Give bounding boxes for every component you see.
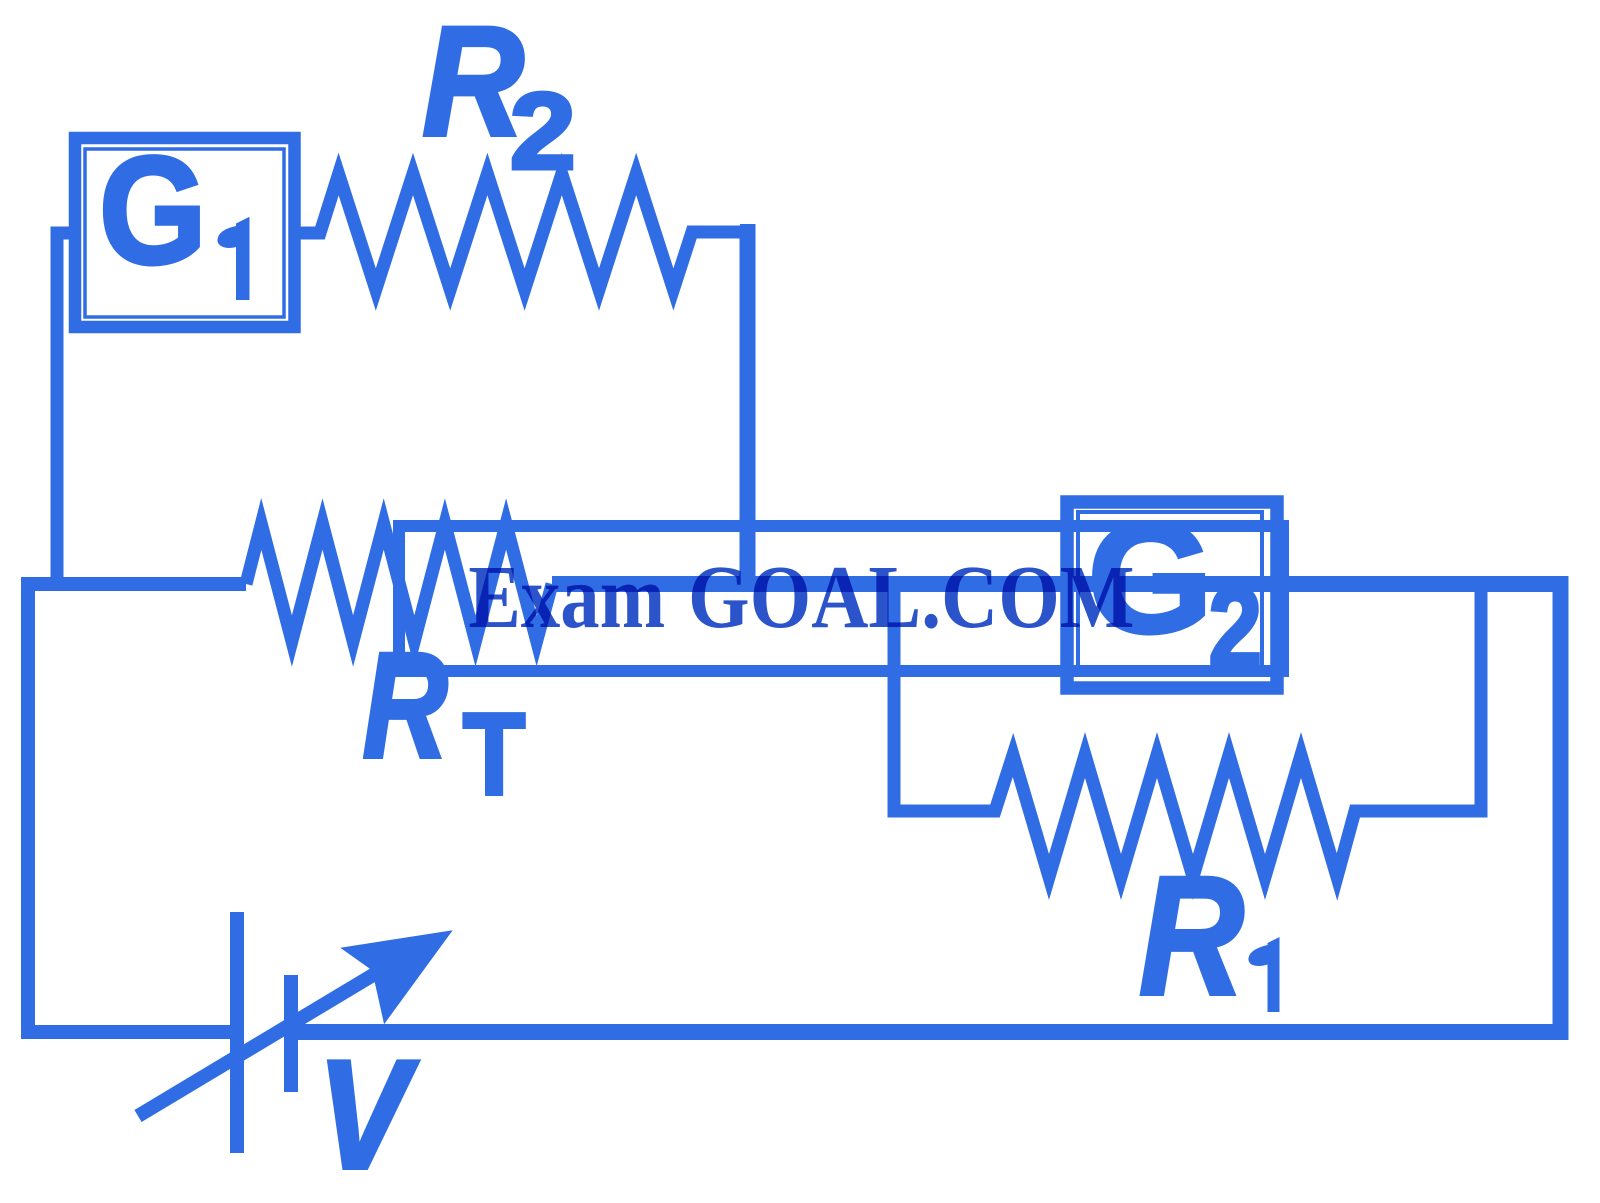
- svg-text:G: G: [99, 125, 207, 296]
- svg-text:2: 2: [510, 71, 576, 192]
- svg-text:T: T: [463, 690, 525, 820]
- svg-text:R: R: [363, 621, 448, 789]
- svg-text:GOAL.COM: GOAL.COM: [688, 547, 1135, 647]
- svg-text:2: 2: [1209, 565, 1262, 692]
- svg-text:Exam: Exam: [468, 548, 665, 647]
- svg-text:R: R: [422, 0, 524, 169]
- svg-text:R: R: [1139, 842, 1244, 1031]
- svg-text:V: V: [317, 1028, 418, 1201]
